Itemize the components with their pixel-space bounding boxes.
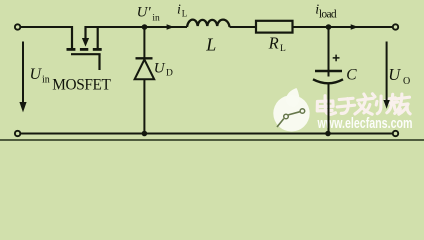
label + polarity	[333, 55, 340, 62]
svg-text:MOSFET: MOSFET	[52, 77, 111, 94]
terminal bottom-left	[15, 131, 20, 136]
svg-text:O: O	[403, 76, 410, 87]
diode U_D branch wire upper	[143, 27, 145, 58]
MOSFET middle bar	[80, 48, 88, 51]
watermark text 电子发烧友	[317, 94, 410, 115]
svg-text:U′: U′	[137, 5, 152, 21]
terminal bottom-right	[393, 131, 398, 136]
arrow U_in (input voltage, pointing down)	[19, 42, 26, 113]
char 发	[355, 94, 375, 114]
resistor R_L	[256, 21, 293, 33]
arrow i_load current	[351, 24, 359, 29]
capacitor C curved bottom plate	[313, 79, 343, 83]
svg-text:U: U	[388, 65, 401, 84]
svg-text:i: i	[177, 3, 181, 18]
MOSFET drain lead	[71, 26, 73, 48]
svg-text:C: C	[346, 67, 357, 84]
terminal top-right	[393, 24, 398, 29]
svg-text:in: in	[152, 13, 160, 23]
char 子	[337, 98, 354, 113]
diode U_D triangle	[135, 60, 155, 80]
transistor MOSFET Q1	[67, 26, 102, 70]
wire top rail between inductor and resistor	[230, 26, 256, 28]
svg-text:in: in	[42, 75, 50, 86]
diode branch wire lower	[143, 79, 145, 133]
wire top rail resistor to right terminal	[293, 26, 393, 28]
capacitor C branch upper wire	[328, 27, 330, 77]
char 友	[395, 94, 410, 114]
svg-text:R: R	[268, 33, 279, 52]
char 电	[317, 96, 335, 115]
svg-text:L: L	[182, 9, 188, 19]
bottom edge dark border	[0, 139, 424, 141]
svg-text:L: L	[280, 44, 286, 54]
svg-text:load: load	[319, 8, 337, 20]
MOSFET right bar	[93, 48, 102, 51]
MOSFET gate bar	[71, 53, 101, 55]
logo leaf	[286, 88, 299, 107]
junction dot diode bottom	[142, 131, 148, 137]
capacitor C top plate	[315, 70, 342, 72]
logo trace node A	[284, 114, 289, 119]
junction dot capacitor bottom	[325, 131, 331, 137]
capacitor branch lower wire (over watermark)	[328, 84, 330, 134]
svg-text:U: U	[154, 61, 166, 77]
wire top rail left (terminal to MOSFET drain)	[21, 26, 72, 28]
diode U_D cathode bar	[136, 57, 153, 59]
junction dot capacitor top	[326, 24, 332, 30]
svg-text:www.elecfans.com: www.elecfans.com	[317, 115, 413, 132]
svg-text:U: U	[30, 66, 43, 83]
inductor L	[187, 20, 230, 27]
watermark logo disc	[273, 88, 309, 132]
node Uin' junction dot	[142, 24, 148, 30]
char 烧	[376, 94, 400, 113]
MOSFET gate lead	[98, 54, 100, 70]
arrow U_O output voltage (drawn over watermark)	[383, 42, 389, 109]
svg-text:L: L	[205, 34, 216, 54]
MOSFET left bar	[67, 48, 76, 51]
MOSFET substrate lead with arrow	[84, 26, 86, 38]
wire top rail right (MOSFET source corner to right terminal)	[85, 26, 188, 28]
wire bottom rail	[21, 133, 392, 135]
MOSFET source lead	[97, 26, 99, 48]
logo trace node B	[300, 109, 305, 114]
arrow i_L current	[167, 24, 175, 29]
terminal top-left	[15, 24, 20, 29]
svg-text:D: D	[166, 68, 173, 78]
logo circuit trace	[277, 112, 300, 127]
